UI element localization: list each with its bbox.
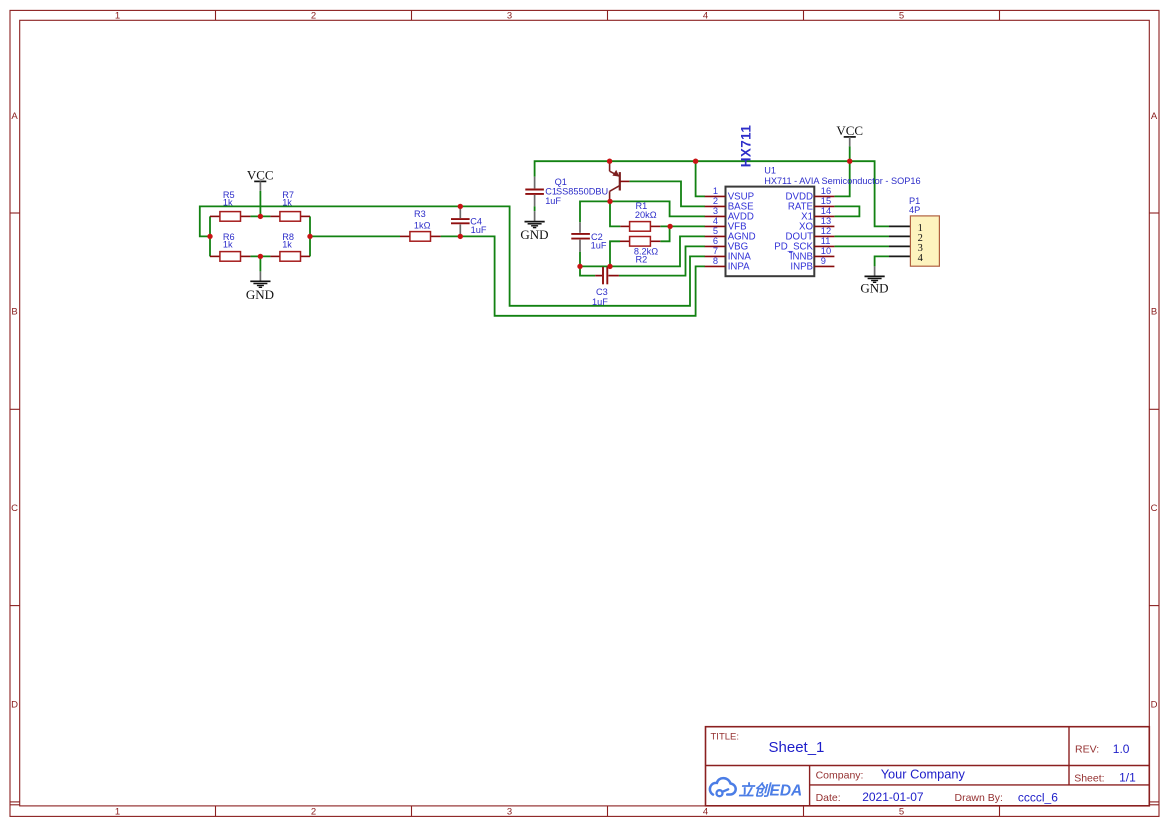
- svg-text:5: 5: [899, 807, 904, 818]
- svg-text:Company:: Company:: [816, 769, 864, 781]
- svg-text:1uF: 1uF: [471, 225, 487, 235]
- capacitor C1: [525, 177, 561, 206]
- svg-text:9: 9: [821, 256, 826, 266]
- title block: [706, 727, 1150, 806]
- ground P1: [860, 266, 888, 295]
- svg-text:A: A: [1151, 111, 1158, 122]
- junction C2 bottom: [577, 264, 582, 269]
- svg-text:1/1: 1/1: [1119, 770, 1136, 784]
- svg-text:B: B: [1151, 307, 1157, 318]
- junction VSUP rail: [693, 159, 698, 164]
- svg-text:INPA: INPA: [728, 262, 750, 273]
- wire R2 left drop: [610, 241, 620, 266]
- wire bridge GND drop: [259, 256, 261, 271]
- svg-text:4: 4: [703, 11, 708, 22]
- svg-text:1kΩ: 1kΩ: [414, 220, 431, 230]
- wire PD_SCK to P1: [834, 245, 889, 247]
- capacitor C3: [592, 267, 619, 307]
- svg-text:C: C: [1151, 503, 1158, 514]
- svg-text:1k: 1k: [282, 197, 292, 207]
- wire C3 right to VBG: [619, 246, 705, 275]
- svg-text:1k: 1k: [282, 240, 292, 250]
- transistor Q1: [555, 161, 630, 201]
- junction Q1 emitter rail: [607, 159, 612, 164]
- svg-text:2: 2: [311, 807, 316, 818]
- capacitor C2: [571, 222, 607, 252]
- svg-text:INPB: INPB: [790, 262, 813, 273]
- svg-text:4: 4: [713, 216, 718, 226]
- svg-text:VCC: VCC: [247, 167, 274, 182]
- wire R1 left drop: [610, 201, 620, 226]
- wire Q1 base to BASE pin: [629, 181, 705, 206]
- resistor R8: [270, 232, 310, 261]
- svg-text:D: D: [11, 700, 18, 711]
- svg-text:TITLE:: TITLE:: [711, 731, 740, 742]
- svg-text:Sheet:: Sheet:: [1074, 773, 1104, 785]
- ground C1: [520, 211, 548, 242]
- svg-text:B: B: [11, 307, 17, 318]
- junction bridge VCC node: [258, 214, 263, 219]
- resistor R7: [270, 190, 310, 221]
- svg-text:HX711: HX711: [739, 125, 754, 168]
- resistor R2: [620, 237, 660, 265]
- wire RATE-X1 loop: [834, 206, 859, 216]
- svg-text:13: 13: [821, 216, 831, 226]
- power flag VCC bridge: [247, 167, 274, 190]
- svg-text:Your Company: Your Company: [881, 767, 966, 782]
- wire R3 to C4 to INPA bend: [441, 236, 705, 315]
- svg-text:3: 3: [507, 807, 512, 818]
- resistor R5: [210, 190, 250, 221]
- wire R5-R7 top rail: [250, 215, 270, 217]
- resistor R3: [400, 209, 441, 241]
- wire C1 bottom to GND: [534, 206, 536, 211]
- svg-text:5: 5: [713, 226, 718, 236]
- svg-text:1.0: 1.0: [1113, 742, 1130, 756]
- svg-text:GND: GND: [860, 281, 888, 296]
- svg-text:R2: R2: [636, 255, 648, 265]
- svg-text:6: 6: [713, 236, 718, 246]
- svg-text:10: 10: [821, 246, 831, 256]
- svg-text:C: C: [11, 503, 18, 514]
- junction Q1 collector node: [607, 199, 612, 204]
- power flag VCC right: [836, 123, 863, 146]
- wire R2 right up to VFB: [660, 226, 669, 241]
- svg-text:HX711 - AVIA Semiconductor - S: HX711 - AVIA Semiconductor - SOP16: [764, 176, 920, 186]
- wire bridge right vertical: [309, 216, 311, 256]
- wire P1 pin4 to GND: [875, 256, 889, 266]
- svg-text:2021-01-07: 2021-01-07: [862, 790, 924, 804]
- wire R6-R8 bottom rail: [250, 255, 270, 257]
- svg-text:1uF: 1uF: [545, 196, 561, 206]
- svg-text:4: 4: [703, 807, 708, 818]
- resistor R6: [210, 232, 250, 261]
- wire DVDD to VCC: [834, 146, 849, 196]
- wire bridge left vertical: [209, 216, 211, 256]
- svg-text:U1: U1: [764, 166, 776, 176]
- wire VFB node: [660, 225, 705, 227]
- svg-text:1: 1: [115, 807, 120, 818]
- svg-text:A: A: [11, 111, 18, 122]
- svg-text:15: 15: [821, 196, 831, 206]
- svg-text:2: 2: [311, 11, 316, 22]
- wire VCC stem to bridge: [259, 191, 261, 217]
- junction VCC symbol rail: [847, 159, 852, 164]
- svg-text:1k: 1k: [223, 197, 233, 207]
- connector P1: [889, 196, 939, 266]
- svg-text:8: 8: [713, 256, 718, 266]
- svg-text:5: 5: [899, 11, 904, 22]
- svg-text:SS8550DBU: SS8550DBU: [556, 187, 608, 197]
- svg-text:11: 11: [821, 236, 831, 246]
- capacitor C4: [451, 207, 487, 236]
- wire bridge right node to R3: [310, 235, 400, 237]
- junction bridge GND node: [258, 254, 263, 259]
- svg-text:ccccl_6: ccccl_6: [1018, 790, 1058, 804]
- svg-text:VCC: VCC: [836, 123, 863, 138]
- junction R2 left: [607, 264, 612, 269]
- junction C4 top: [458, 204, 463, 209]
- op-amp U1 HX711: [705, 125, 921, 277]
- svg-text:REV:: REV:: [1075, 744, 1099, 756]
- svg-text:GND: GND: [520, 227, 548, 242]
- svg-text:立创EDA: 立创EDA: [739, 782, 803, 800]
- svg-text:1: 1: [713, 186, 718, 196]
- svg-text:14: 14: [821, 206, 831, 216]
- svg-text:GND: GND: [246, 287, 274, 302]
- wire VSUP drop: [696, 161, 705, 196]
- svg-text:4: 4: [918, 253, 924, 264]
- svg-text:4P: 4P: [909, 205, 920, 215]
- svg-text:12: 12: [821, 226, 831, 236]
- svg-text:1uF: 1uF: [592, 297, 608, 307]
- svg-text:16: 16: [821, 186, 831, 196]
- svg-text:20kΩ: 20kΩ: [635, 210, 657, 220]
- junction C4 bottom: [458, 234, 463, 239]
- junction VFB node: [667, 224, 672, 229]
- junction bridge right node: [307, 234, 312, 239]
- wire DOUT to P1: [834, 235, 889, 237]
- svg-text:2: 2: [713, 196, 718, 206]
- logo LCEDA: [710, 778, 802, 799]
- wire AGND rail: [580, 236, 705, 266]
- svg-text:Date:: Date:: [816, 792, 841, 804]
- wire VCC rail: [535, 161, 889, 226]
- svg-text:1uF: 1uF: [591, 241, 607, 251]
- svg-text:1k: 1k: [223, 240, 233, 250]
- svg-text:1: 1: [115, 11, 120, 22]
- svg-text:D: D: [1151, 700, 1158, 711]
- svg-text:Sheet_1: Sheet_1: [769, 739, 825, 756]
- resistor R1: [620, 201, 660, 231]
- wire bridge left node rail: [200, 206, 705, 305]
- svg-text:R3: R3: [414, 209, 426, 219]
- junction bridge left node: [207, 234, 212, 239]
- svg-text:C3: C3: [596, 287, 608, 297]
- svg-text:3: 3: [713, 206, 718, 216]
- svg-text:7: 7: [713, 246, 718, 256]
- svg-text:3: 3: [507, 11, 512, 22]
- wire C3 left: [580, 266, 595, 275]
- ground bridge: [246, 271, 274, 302]
- svg-text:Drawn By:: Drawn By:: [955, 792, 1003, 804]
- wire collector AVDD net: [580, 201, 705, 222]
